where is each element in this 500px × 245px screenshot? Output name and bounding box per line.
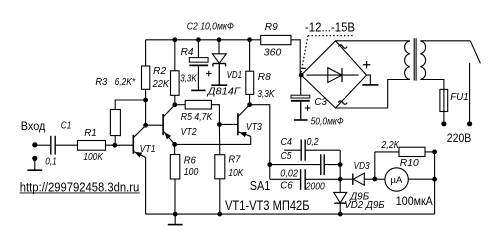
transformer T1 secondary winding [405, 41, 410, 80]
zener diode VD1 [212, 54, 226, 67]
node B (R2/R3) [143, 98, 148, 103]
svg-text:50,0мкФ: 50,0мкФ [311, 117, 344, 128]
junction rail/VD2 [338, 212, 343, 217]
resistor R6 [170, 155, 180, 180]
wire R7 to rail [219, 179, 221, 214]
svg-text:220В: 220В [447, 131, 472, 145]
svg-text:0,02: 0,02 [280, 168, 298, 179]
svg-text:Д814Г: Д814Г [207, 86, 242, 97]
svg-text:VT1-VT3 МП42Б: VT1-VT3 МП42Б [225, 197, 310, 213]
label VT1 [140, 144, 156, 155]
svg-text:C3: C3 [314, 97, 327, 108]
svg-text:SA1: SA1 [250, 179, 271, 193]
label SA1 [250, 179, 271, 193]
wire R5 to VT3 base node [211, 105, 219, 125]
svg-text:2,2К: 2,2К [381, 140, 400, 151]
label VD2 Д9Б [344, 200, 385, 211]
wire bottom common rail [146, 213, 435, 215]
switch blade (power) [470, 41, 480, 64]
svg-text:R3: R3 [95, 77, 107, 88]
svg-text:10K: 10K [228, 168, 244, 179]
capacitor C6 [270, 169, 340, 190]
svg-text:100: 100 [184, 167, 199, 178]
label C3 [314, 97, 327, 108]
junction rail/R4 [172, 37, 177, 42]
wire C1 to R1 [55, 144, 77, 146]
bridge rectifier diamond [301, 41, 366, 108]
node A (R1/R3/VT1 base) [112, 143, 117, 148]
svg-text:FU1: FU1 [450, 92, 469, 103]
wire node K to VD2 [339, 179, 341, 192]
input terminal lower contact [32, 156, 37, 161]
value 10K (R7) [228, 168, 244, 179]
node I (SA1 line / C5) [267, 162, 272, 167]
wire R9 to bridge minus [291, 40, 300, 75]
node D (R4/VT2 collector/R5) [172, 102, 177, 107]
label R3 [95, 77, 107, 88]
svg-text:6,2K*: 6,2K* [115, 77, 136, 88]
node C (VT1 collector / VT2 base) [143, 123, 148, 128]
resistor R8 [246, 71, 254, 94]
capacitor C1 [51, 136, 55, 155]
wire input to C1 [35, 144, 50, 146]
wire rail to VD1 [218, 40, 220, 54]
transformer T1 primary winding [420, 41, 425, 80]
svg-text:2000: 2000 [305, 182, 325, 193]
ground (input) [27, 158, 42, 170]
diode VD2 [334, 192, 347, 203]
transformer core [414, 38, 416, 80]
wire primary top to switch [420, 40, 470, 42]
node M (meter right) [432, 177, 437, 182]
resistor R10 [399, 147, 425, 156]
svg-text:Д9Б: Д9Б [349, 192, 369, 203]
value 360 (R9) [264, 48, 282, 59]
svg-text:R9: R9 [265, 22, 278, 33]
value 100K (R1) [83, 152, 104, 163]
wire C5 node down [339, 165, 341, 180]
resistor R9 [261, 35, 291, 44]
wire switch contact to terminal [469, 63, 471, 124]
label C4 [281, 137, 293, 148]
resistor R7 [215, 155, 225, 179]
junction rail/VD1 [217, 37, 222, 42]
resistor R4 [171, 71, 180, 96]
resistor R2 [142, 66, 150, 89]
wire C3 to ground [300, 101, 302, 120]
label C1 [61, 120, 72, 131]
value 100 (R6) [184, 167, 199, 178]
wire top supply rail [146, 39, 250, 41]
svg-text:R5 4,7K: R5 4,7K [181, 112, 214, 123]
wire node G to SA1 line [250, 105, 270, 180]
label R9 [265, 22, 278, 33]
ground (VD1) [211, 64, 227, 86]
value 22K (R2) [152, 79, 171, 90]
label FU1 [450, 92, 469, 103]
wire VD1 to ground [218, 64, 220, 85]
node J (C4/C5 right) [338, 162, 343, 167]
label C2 10,0мкФ [187, 21, 234, 32]
wire R3 top to node B [115, 100, 145, 110]
bridge internal diode [307, 68, 359, 83]
label R1 [84, 128, 97, 139]
value 2000 (C6) [305, 182, 325, 193]
label R7 [228, 155, 240, 166]
value 3,3K (R4) [180, 73, 198, 84]
wire VT2 base [146, 124, 163, 126]
label R2 [153, 66, 166, 77]
svg-text:C2 10,0мкФ: C2 10,0мкФ [187, 21, 234, 32]
svg-text:R6: R6 [184, 156, 196, 167]
wire R6 to rail [174, 179, 176, 214]
capacitor C3 (electrolytic) [291, 95, 310, 101]
diode VD3 [340, 173, 375, 185]
wire R10 to node N [425, 151, 435, 153]
wire node F to R6 [174, 144, 176, 154]
svg-text:R8: R8 [258, 72, 271, 83]
label VT3 [246, 122, 262, 133]
label VD3 [354, 161, 370, 172]
svg-text:R10: R10 [400, 158, 419, 169]
capacitor C4 [284, 140, 340, 161]
svg-text:R7: R7 [228, 155, 240, 166]
wire fuse to terminal [443, 112, 445, 124]
wire bridge top ac to secondary [336, 40, 410, 42]
wire rail to R9 [250, 39, 261, 41]
wire meter to right branch [408, 178, 434, 180]
wire node D to R5 [175, 104, 185, 106]
wire rail to R4 [174, 40, 176, 71]
svg-text:VD1: VD1 [227, 70, 243, 81]
wire C4 right down [339, 150, 341, 164]
minus sign (bridge) [302, 67, 306, 69]
svg-text:0,1: 0,1 [45, 156, 57, 167]
plus sign (C2) [206, 71, 212, 77]
ground (bridge plus) [362, 75, 378, 85]
label R4 [181, 47, 194, 58]
label VT1-VT3 МП42Б [225, 197, 310, 213]
label VT2 [181, 127, 197, 138]
transistor VT2 [163, 105, 175, 145]
label R5 4,7K [181, 112, 214, 123]
svg-text:Вход: Вход [21, 121, 46, 133]
label 100мкА [396, 194, 433, 208]
value Д814Г (VD1) [207, 86, 242, 97]
svg-text:С6: С6 [280, 180, 293, 191]
svg-text:http://299792458.3dn.ru: http://299792458.3dn.ru [20, 180, 140, 194]
wire R2 to VT1 collector node [145, 89, 147, 125]
svg-text:-12...-15В: -12...-15В [305, 20, 355, 34]
ac mark top (bridge) [338, 45, 347, 48]
value 0,1 (C1) [45, 156, 57, 167]
svg-text:R4: R4 [181, 47, 194, 58]
ground (bottom rail) [168, 214, 183, 225]
wire bridge minus to C3 [300, 75, 302, 95]
value 50,0мкФ (C3) [311, 117, 344, 128]
svg-text:0,2: 0,2 [307, 137, 319, 148]
resistor R3 [110, 110, 120, 136]
svg-text:22K: 22K [152, 79, 171, 90]
hyperlink http://299792458.3dn.ru [20, 180, 140, 194]
label 220В [447, 131, 472, 145]
svg-text:VD3: VD3 [354, 161, 370, 172]
ac mark bottom (bridge) [338, 101, 347, 104]
svg-text:C1: C1 [61, 120, 72, 131]
svg-text:C5: C5 [281, 151, 292, 162]
svg-text:100мкА: 100мкА [396, 194, 433, 208]
capacitor C5 [270, 154, 340, 175]
wire rail to C2 [197, 40, 199, 58]
wire VT3 emitter [175, 136, 251, 144]
svg-text:R1: R1 [84, 128, 97, 139]
wire to R10 [375, 151, 399, 153]
label R10 [400, 158, 419, 169]
junction rail/R9/R8 [247, 37, 252, 42]
wire R1 to node A [106, 144, 133, 146]
svg-text:R2: R2 [153, 66, 166, 77]
meter PA1 (microammeter) [385, 168, 408, 191]
wire C2 to ground [197, 65, 199, 89]
svg-text:C4: C4 [281, 137, 293, 148]
node N (R10 right) [432, 150, 437, 155]
wire R4 to node D [174, 95, 176, 104]
svg-text:VT2: VT2 [181, 127, 197, 138]
wire node N down to rail [434, 152, 436, 214]
wire VT1 emitter down [145, 157, 147, 214]
wire R8 to node G [249, 94, 251, 104]
wire primary bottom to fuse [420, 80, 444, 90]
svg-text:VT1: VT1 [140, 144, 156, 155]
svg-text:3,3K: 3,3K [257, 89, 275, 100]
wire VD2 to rail [339, 203, 341, 214]
value 6,2K* (R3) [115, 77, 136, 88]
node H (bridge minus output) [299, 73, 304, 78]
wire rail to R2 [145, 40, 147, 66]
terminal 220V left [441, 121, 446, 126]
wire node E down to R7 [218, 124, 220, 154]
capacitor C2 (electrolytic) [189, 58, 208, 66]
label VD1 [227, 70, 243, 81]
label C5 [281, 151, 292, 162]
node L (VD3/R10/meter) [372, 177, 377, 182]
value 0,02 (C5) [280, 168, 298, 179]
junction rail/R6-ground [173, 212, 178, 217]
wire rail to R8 [249, 40, 251, 71]
node F (VT2 emitter/R6) [172, 142, 177, 147]
svg-text:VT3: VT3 [246, 122, 262, 133]
node G (R8/VT3 collector) [247, 102, 252, 107]
transistor VT1 [133, 126, 145, 158]
plus sign (bridge) [363, 61, 370, 68]
fuse FU1 [440, 89, 448, 111]
label R6 [184, 156, 196, 167]
node K (C6/VD3/VD2) [338, 177, 343, 182]
svg-text:µА: µА [390, 175, 402, 186]
wire VT3 base [219, 123, 237, 125]
value Д9Б (VD3) [349, 192, 369, 203]
terminal 220V right [467, 121, 472, 126]
junction rail/R7 [217, 212, 222, 217]
junction rail/C2 [196, 37, 201, 42]
svg-text:100K: 100K [83, 152, 104, 163]
dotted leader (-12...-15В) [301, 36, 354, 74]
wire node L to meter [375, 178, 385, 180]
plus sign (C3) [305, 105, 311, 111]
value 3,3K (R8) [257, 89, 275, 100]
label R8 [258, 72, 271, 83]
input terminal (Вход) upper contact [32, 142, 37, 147]
resistor R1 [78, 141, 106, 151]
ground (C2) [191, 89, 205, 92]
wire node L up to R10 [374, 152, 376, 179]
svg-text:3,3K: 3,3K [180, 73, 198, 84]
label C6 [280, 180, 293, 191]
node E (R5/VT3 base/R7) [217, 122, 222, 127]
value 2,2К (R10) [381, 140, 400, 151]
resistor R5 [185, 100, 211, 109]
svg-text:360: 360 [264, 48, 282, 59]
label Вход [21, 121, 46, 133]
wire bridge bottom ac to secondary [336, 80, 410, 109]
value 0,2 (C4) [307, 137, 319, 148]
wire node A up to R3 [114, 136, 116, 146]
label -12...-15В [305, 20, 355, 34]
transistor VT3 [238, 105, 251, 137]
ground (C3) [294, 101, 308, 120]
